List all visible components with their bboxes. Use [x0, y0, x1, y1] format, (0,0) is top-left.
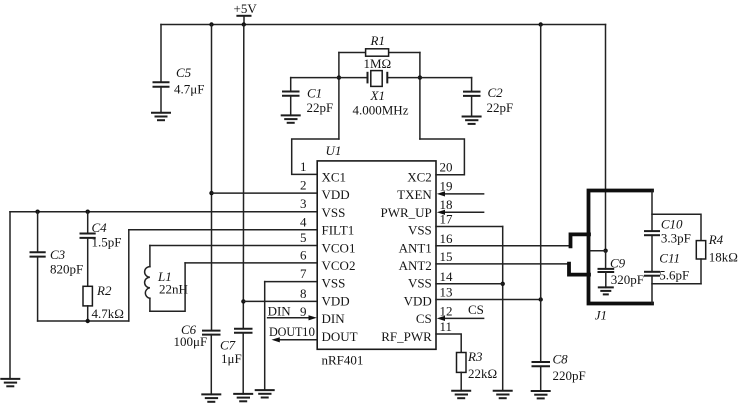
svg-text:ANT2: ANT2 [399, 258, 432, 273]
capacitor C5 [153, 25, 205, 113]
svg-text:R2: R2 [96, 283, 112, 298]
svg-text:18: 18 [440, 197, 453, 212]
svg-text:DIN: DIN [268, 304, 292, 319]
node DOUT output arrow (pin 10) [269, 325, 317, 342]
node TXEN arrow (pin 19) [437, 191, 484, 196]
wire VDD pin 2 [212, 192, 318, 194]
svg-text:100μF: 100μF [174, 334, 208, 349]
wire RC bottom (C3/R2 to FILT1) [38, 320, 129, 322]
svg-text:1: 1 [300, 159, 307, 174]
svg-text:22nH: 22nH [159, 282, 188, 297]
svg-text:DOUT: DOUT [322, 329, 358, 344]
junction dot rail / +5V stub [242, 22, 246, 26]
svg-text:VCO1: VCO1 [322, 240, 356, 255]
svg-text:TXEN: TXEN [397, 187, 432, 202]
capacitor C7 [220, 329, 253, 394]
inductor L1 [145, 246, 188, 312]
svg-text:VSS: VSS [322, 205, 346, 220]
ground (R3) [451, 391, 471, 398]
crystal X1 [339, 71, 420, 118]
resistor R3 [457, 349, 498, 391]
node DIN input arrow (pin 9) [268, 304, 317, 321]
svg-text:1μF: 1μF [221, 351, 242, 366]
node CS arrow (pin 12) [437, 302, 484, 321]
svg-text:C8: C8 [553, 352, 569, 367]
svg-text:C11: C11 [659, 251, 680, 266]
capacitor C6 [174, 322, 221, 394]
svg-text:18kΩ: 18kΩ [709, 250, 738, 265]
svg-text:VSS: VSS [322, 276, 346, 291]
svg-text:DIN: DIN [322, 311, 346, 326]
wire VSS pin 17 [436, 226, 503, 228]
svg-text:4: 4 [300, 214, 307, 229]
svg-text:13: 13 [440, 285, 453, 300]
svg-text:10: 10 [302, 324, 315, 339]
svg-text:R1: R1 [370, 33, 385, 48]
svg-text:4.7kΩ: 4.7kΩ [92, 306, 124, 321]
svg-text:VDD: VDD [322, 187, 350, 202]
wire VSS pin 14 [436, 283, 503, 285]
wire XC2 pin 20 [420, 139, 465, 175]
ground (C5) [151, 113, 171, 120]
svg-text:3: 3 [300, 196, 307, 211]
svg-text:J1: J1 [595, 308, 607, 323]
svg-text:C4: C4 [92, 220, 108, 235]
junction dot pin 2 VDD [209, 191, 213, 195]
junction dot pin 14 VSS [501, 282, 505, 286]
U1 right pin names [381, 170, 433, 344]
svg-text:12: 12 [440, 303, 453, 318]
svg-text:C2: C2 [488, 85, 504, 100]
svg-text:15: 15 [440, 249, 453, 264]
svg-text:CS: CS [416, 311, 432, 326]
svg-text:VDD: VDD [404, 293, 432, 308]
svg-text:+5V: +5V [234, 1, 258, 16]
op-amp U1 IC body nRF401 [317, 143, 436, 368]
ground (left VSS) [0, 379, 20, 386]
resistor R1 [339, 33, 420, 71]
svg-text:C9: C9 [610, 255, 626, 270]
ground (C2) [462, 117, 482, 124]
wire rail down to J1 / C9 [605, 25, 607, 251]
svg-text:C10: C10 [661, 217, 683, 232]
J1 right edge segments [651, 191, 653, 304]
svg-text:11: 11 [440, 319, 453, 334]
capacitor C9 [598, 251, 645, 288]
resistor R4 [696, 232, 738, 284]
svg-text:PWR_UP: PWR_UP [381, 205, 432, 220]
svg-text:20: 20 [440, 160, 453, 175]
svg-text:8: 8 [300, 286, 307, 301]
svg-text:VCO2: VCO2 [322, 258, 356, 273]
wire VDD pin 13 [436, 299, 541, 301]
junction dot C3 top [35, 210, 39, 214]
capacitor C1 [282, 78, 339, 116]
ground (VSS column) [493, 391, 513, 398]
svg-text:R4: R4 [708, 232, 724, 247]
wire +5V column (to pin 8 and C7) [242, 25, 245, 329]
svg-text:FILT1: FILT1 [322, 223, 355, 238]
svg-text:6: 6 [300, 247, 307, 262]
wire VSS pin 7 down to ground [264, 282, 266, 391]
svg-text:16: 16 [440, 231, 454, 246]
wire VCO2 pin 6 [185, 262, 317, 264]
U1 left pin numbers [300, 159, 315, 339]
svg-text:1.5pF: 1.5pF [92, 235, 122, 250]
wire VSS pin 7 [265, 281, 318, 283]
svg-text:4.7μF: 4.7μF [174, 82, 204, 97]
svg-text:ANT1: ANT1 [399, 240, 432, 255]
svg-text:220pF: 220pF [553, 368, 586, 383]
svg-text:C5: C5 [176, 65, 192, 80]
svg-text:DOUT: DOUT [269, 325, 303, 339]
resistor R2 [83, 283, 124, 321]
svg-text:XC2: XC2 [407, 170, 432, 185]
wire XC1 pin 1 [292, 139, 339, 174]
svg-text:U1: U1 [326, 143, 342, 158]
svg-text:320pF: 320pF [611, 272, 644, 287]
svg-text:4.000MHz: 4.000MHz [353, 103, 409, 118]
junction dot C4 top [86, 210, 90, 214]
ground (pin 7 VSS) [255, 390, 275, 397]
junction dot pin 8 VDD [241, 299, 245, 303]
capacitor C4 [80, 212, 122, 287]
wire L1 bottom to VCO2 [150, 263, 185, 311]
svg-text:CS: CS [468, 302, 484, 317]
wire VSS pin 3 [10, 211, 317, 213]
wire VSS pin 3 down to ground [9, 212, 11, 379]
svg-text:C3: C3 [50, 247, 66, 262]
wire VDD pin 8 [243, 300, 317, 302]
svg-text:7: 7 [300, 266, 307, 281]
junction dot rail / C8 branch [539, 22, 543, 26]
svg-text:9: 9 [300, 304, 307, 319]
junction dot rail / C6 branch [209, 22, 213, 26]
wire VCO1 pin 5 [150, 245, 317, 247]
svg-text:VSS: VSS [408, 223, 432, 238]
ground (C9) [598, 287, 614, 294]
node PWR_UP arrow (pin 18) [437, 210, 484, 215]
capacitor C11 [644, 251, 689, 283]
ground (C1) [281, 115, 301, 122]
wire J1 to R4 top [652, 214, 701, 240]
svg-text:5.6pF: 5.6pF [659, 268, 689, 283]
capacitor C2 [420, 78, 513, 117]
svg-text:VSS: VSS [408, 276, 432, 291]
svg-text:1MΩ: 1MΩ [364, 56, 392, 71]
svg-text:22kΩ: 22kΩ [468, 366, 497, 381]
wire FILT1 pin 4 [129, 229, 317, 231]
svg-text:22pF: 22pF [307, 100, 334, 115]
svg-text:19: 19 [440, 179, 453, 194]
wire VDD/C8 column [540, 25, 542, 363]
svg-text:RF_PWR: RF_PWR [381, 329, 432, 344]
svg-text:22pF: 22pF [487, 100, 514, 115]
svg-text:R3: R3 [467, 349, 483, 364]
wire R4 bottom to J1 [652, 283, 701, 285]
wire J1 edge to C9 node [591, 250, 606, 252]
svg-text:5: 5 [300, 230, 307, 245]
junction dot X1 left [337, 75, 341, 79]
ground (C8) [531, 391, 551, 398]
wire ANT1 pin 16 [436, 245, 571, 247]
J1 lower feed tab [569, 264, 589, 275]
capacitor C8 [532, 352, 586, 392]
capacitor C3 [30, 212, 84, 321]
U1 left pin names [322, 170, 358, 344]
svg-text:14: 14 [440, 269, 454, 284]
wire RF_PWR pin 11 [436, 334, 461, 353]
connector J1 loop antenna body [589, 191, 653, 304]
ground (C6) [201, 394, 221, 401]
J1 upper feed tab [571, 234, 590, 246]
capacitor C10 [644, 217, 691, 246]
svg-text:VDD: VDD [322, 293, 350, 308]
wire crystal left column [338, 53, 340, 140]
svg-text:XC1: XC1 [322, 170, 347, 185]
svg-text:nRF401: nRF401 [322, 353, 364, 368]
svg-text:C1: C1 [307, 86, 322, 101]
svg-text:X1: X1 [370, 88, 385, 103]
svg-text:3.3pF: 3.3pF [661, 231, 691, 246]
junction dot X1 right [418, 75, 422, 79]
wire FILT1 down to RC [128, 230, 130, 321]
U1 right pin numbers [440, 160, 454, 334]
svg-text:820pF: 820pF [50, 262, 83, 277]
wire +5V top rail [161, 24, 606, 26]
wire VSS column down to ground [502, 227, 504, 391]
wire VDD column (rail to C6, pin 2 tap) [211, 25, 213, 331]
junction dot C9 feed [603, 249, 607, 253]
wire crystal right column [419, 53, 421, 140]
junction dot R2 bottom [86, 319, 90, 323]
wire ANT2 pin 15 [436, 263, 569, 265]
ground (C7) [233, 394, 253, 401]
svg-text:2: 2 [300, 178, 307, 193]
node +5V terminal [234, 1, 258, 25]
junction dot pin 13 VDD [539, 297, 543, 301]
